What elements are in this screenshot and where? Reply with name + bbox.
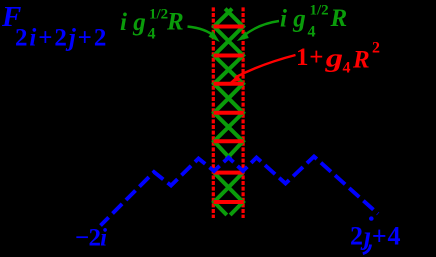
svg-text:1/2: 1/2 bbox=[310, 3, 329, 19]
svg-text:−2i: −2i bbox=[75, 225, 107, 252]
dot of italic j in 2j+4 bbox=[369, 216, 374, 220]
svg-text:2i+2j+2: 2i+2j+2 bbox=[15, 25, 108, 52]
arrowhead of left green arrow bbox=[209, 31, 220, 42]
svg-text:g: g bbox=[325, 44, 343, 73]
svg-text:R: R bbox=[166, 9, 184, 36]
wire: left red dotted vertical line bbox=[212, 7, 215, 218]
red rung bar 5 bbox=[214, 139, 244, 143]
wire: right red dotted vertical line bbox=[242, 7, 245, 218]
arrow from right green label to ladder bbox=[244, 21, 280, 36]
arrowhead of right green arrow bbox=[237, 31, 249, 41]
arrow from red label to ladder rung bbox=[235, 55, 296, 78]
red rung bar 7 bbox=[214, 200, 244, 204]
green ladder zigzag B bbox=[214, 9, 243, 159]
red rung bar 2 bbox=[214, 54, 244, 58]
svg-text:R: R bbox=[352, 47, 370, 74]
svg-text:4: 4 bbox=[308, 24, 316, 41]
svg-text:i g: i g bbox=[280, 6, 306, 33]
svg-text:4: 4 bbox=[343, 60, 351, 77]
svg-text:i g: i g bbox=[120, 9, 146, 36]
svg-text:R: R bbox=[330, 5, 348, 32]
red rung bar 3 bbox=[214, 82, 244, 86]
green ladder zigzag A bbox=[214, 9, 243, 159]
svg-text:2: 2 bbox=[372, 40, 380, 57]
svg-text:1+: 1+ bbox=[296, 44, 324, 71]
wire: blue dashed external propagator zigzag bbox=[101, 157, 379, 226]
svg-text:4: 4 bbox=[148, 26, 156, 43]
red rung bar 1 bbox=[214, 25, 244, 29]
arrow from left green label to ladder bbox=[188, 27, 215, 37]
red rung bar 4 bbox=[214, 111, 244, 115]
green ladder zigzag B lower part bbox=[214, 173, 243, 215]
tail of italic j in 2j+4 bbox=[363, 245, 371, 254]
green ladder zigzag A lower part bbox=[214, 173, 243, 215]
red rung bar 6 bbox=[214, 171, 244, 175]
svg-text:1/2: 1/2 bbox=[149, 6, 168, 22]
arrowhead of red arrow bbox=[229, 75, 241, 83]
svg-text:2ȷ+4: 2ȷ+4 bbox=[350, 222, 401, 251]
